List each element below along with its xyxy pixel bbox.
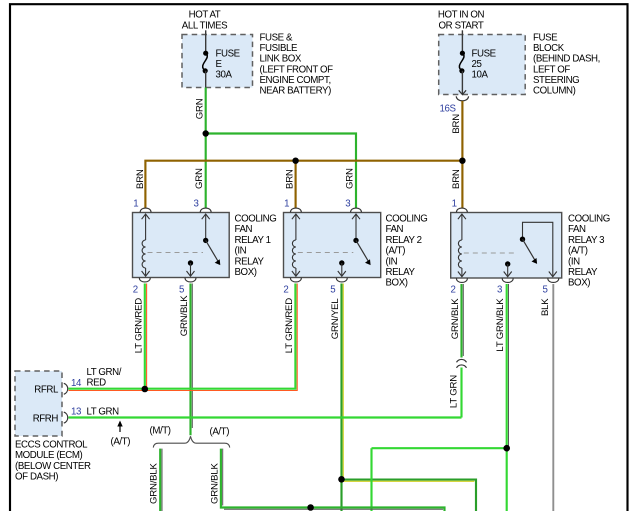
fuse 25 symbol	[459, 51, 465, 74]
svg-text:FUSIBLE: FUSIBLE	[260, 43, 299, 54]
wire stub into fuse E	[205, 30, 207, 53]
node BRN junction at relay2	[292, 158, 298, 164]
wire stub out of fuse E	[205, 71, 207, 88]
relay 3 switch	[504, 222, 557, 276]
svg-text:GRN: GRN	[194, 168, 205, 189]
svg-text:30A: 30A	[216, 70, 233, 81]
arrow (A/T) pointer	[117, 421, 122, 433]
svg-text:3: 3	[194, 199, 199, 210]
label COOLING FAN RELAY 3	[568, 214, 610, 289]
title HOT IN ON OR START	[438, 10, 485, 32]
svg-text:BOX): BOX)	[235, 267, 257, 278]
svg-text:ALL TIMES: ALL TIMES	[182, 20, 228, 31]
svg-text:RFRL: RFRL	[34, 385, 59, 396]
relay 3 box	[451, 213, 562, 279]
svg-text:BRN: BRN	[451, 114, 462, 134]
svg-text:RELAY 3: RELAY 3	[568, 235, 604, 246]
svg-text:FUSE &: FUSE &	[260, 33, 294, 44]
relay 2 coil	[292, 214, 300, 276]
label COOLING FAN RELAY 2	[386, 214, 428, 289]
svg-text:BRN: BRN	[284, 169, 295, 189]
svg-text:3: 3	[497, 285, 502, 296]
svg-text:COLUMN): COLUMN)	[533, 86, 576, 97]
wire GRN/YEL horizontal at y479	[342, 480, 477, 511]
svg-text:(M/T): (M/T)	[150, 426, 171, 437]
svg-text:RED: RED	[87, 378, 107, 389]
label COOLING FAN RELAY 1	[235, 214, 277, 279]
node BRN junction at relay3	[459, 158, 465, 164]
svg-text:LINK BOX: LINK BOX	[260, 54, 302, 65]
svg-text:RELAY: RELAY	[235, 256, 265, 267]
svg-text:(A/T): (A/T)	[568, 246, 588, 257]
svg-text:FAN: FAN	[386, 224, 404, 235]
svg-text:25: 25	[472, 59, 482, 70]
wire BLK relay3 pin5 down	[552, 284, 554, 511]
svg-text:BOX): BOX)	[568, 278, 590, 289]
relay 3 coil	[458, 214, 466, 277]
svg-text:E: E	[216, 59, 223, 70]
svg-text:RELAY: RELAY	[386, 267, 416, 278]
svg-text:HOT IN ON: HOT IN ON	[438, 10, 485, 21]
fusible link E symbol	[203, 51, 209, 74]
svg-text:(LEFT FRONT OF: (LEFT FRONT OF	[260, 64, 334, 75]
wire LT GRN/RED relay1 pin2 down	[145, 284, 147, 389]
wire LT GRN/BLK branch left and down	[372, 447, 507, 449]
node junction LT GRN/BLK	[503, 445, 510, 452]
svg-text:GRN/BLK: GRN/BLK	[450, 298, 461, 340]
svg-text:LEFT OF: LEFT OF	[533, 64, 570, 75]
svg-text:COOLING: COOLING	[568, 214, 610, 225]
relay 3 dashed line	[464, 252, 514, 254]
node junction GRN/YEL	[338, 476, 345, 483]
svg-text:1: 1	[284, 199, 289, 210]
wire GRN from fuse E down	[205, 88, 207, 209]
svg-text:10A: 10A	[472, 70, 489, 81]
relay 2 switch	[338, 214, 371, 276]
svg-text:1: 1	[452, 199, 457, 210]
svg-text:ENGINE COMPT,: ENGINE COMPT,	[260, 75, 331, 86]
node junction LT GRN/RED	[142, 386, 149, 393]
svg-text:(A/T): (A/T)	[111, 437, 131, 448]
svg-text:(IN: (IN	[568, 256, 580, 267]
svg-text:5: 5	[543, 285, 548, 296]
connector arc ECM pin13	[64, 412, 68, 423]
svg-text:FUSE: FUSE	[216, 49, 241, 60]
svg-text:(IN: (IN	[386, 256, 398, 267]
relay 1 dashed line	[148, 252, 204, 254]
wire GRN/YEL relay2 pin5 down	[342, 284, 344, 511]
wire LT GRN up from ECM13 line to connector	[460, 368, 462, 418]
ECM box (dashed)	[15, 371, 62, 436]
svg-text:13: 13	[71, 407, 81, 418]
relay 2 box	[284, 213, 381, 278]
brace M/T A/T	[153, 436, 229, 447]
svg-text:RELAY: RELAY	[568, 267, 598, 278]
svg-text:FUSE: FUSE	[533, 33, 558, 44]
connector arc ECM pin14	[64, 383, 68, 394]
svg-text:5: 5	[179, 285, 184, 296]
svg-text:NEAR BATTERY): NEAR BATTERY)	[260, 86, 332, 97]
svg-text:BLK: BLK	[540, 298, 551, 316]
connector inline (two arcs)	[457, 359, 467, 367]
label FUSE & FUSIBLE LINK BOX	[260, 33, 334, 97]
svg-text:HOT AT: HOT AT	[189, 10, 221, 21]
node GRN junction	[203, 130, 209, 136]
svg-text:COOLING: COOLING	[235, 214, 277, 225]
svg-text:BRN: BRN	[135, 169, 146, 189]
svg-text:LT GRN/RED: LT GRN/RED	[284, 298, 295, 353]
relay 1 switch	[187, 214, 221, 276]
svg-text:2: 2	[283, 285, 288, 296]
wire GRN/BLK relay3 pin2 down	[462, 284, 464, 358]
wire BRN drop to relay2	[295, 161, 297, 208]
svg-text:LT GRN/: LT GRN/	[87, 367, 122, 378]
svg-text:(BELOW CENTER: (BELOW CENTER	[15, 461, 91, 472]
node junction bottom	[307, 504, 314, 511]
wire GRN/BLK A/T branch	[221, 449, 445, 511]
relay 1 box	[133, 213, 230, 278]
fuse box F2 (dashed)	[439, 35, 526, 95]
wire out of fuse 25 with arrow	[461, 71, 463, 94]
svg-text:2: 2	[451, 285, 456, 296]
svg-text:BOX): BOX)	[386, 278, 408, 289]
svg-text:BLOCK: BLOCK	[533, 43, 565, 54]
svg-text:LT GRN: LT GRN	[449, 375, 460, 408]
svg-text:OF DASH): OF DASH)	[15, 472, 58, 483]
svg-text:GRN/YEL: GRN/YEL	[330, 298, 341, 340]
svg-text:LT GRN/BLK: LT GRN/BLK	[495, 298, 506, 352]
svg-text:GRN/BLK: GRN/BLK	[209, 462, 220, 504]
svg-text:2: 2	[133, 285, 138, 296]
connector 16S arc	[456, 96, 468, 101]
svg-text:COOLING: COOLING	[386, 214, 428, 225]
svg-text:RELAY 1: RELAY 1	[235, 235, 271, 246]
svg-text:MODULE (ECM): MODULE (ECM)	[15, 450, 82, 461]
svg-text:GRN: GRN	[345, 168, 356, 189]
svg-text:(A/T): (A/T)	[386, 246, 406, 257]
label FUSE BLOCK	[533, 33, 600, 97]
svg-text:STEERING: STEERING	[533, 75, 579, 86]
svg-text:3: 3	[345, 199, 350, 210]
wire LT GRN/BLK relay3 pin3 down	[507, 284, 509, 511]
svg-text:BRN: BRN	[451, 169, 462, 189]
svg-text:(A/T): (A/T)	[210, 427, 230, 438]
svg-text:GRN: GRN	[194, 98, 205, 119]
fuse box F1 (dashed)	[182, 35, 253, 88]
title HOT AT ALL TIMES	[182, 10, 228, 32]
relay 3 connector arcs	[456, 208, 558, 282]
svg-text:(IN: (IN	[235, 246, 247, 257]
wire GRN/BLK relay1 pin5 down to brace	[191, 284, 193, 436]
wire stub into fuse 25	[461, 30, 463, 53]
svg-text:(BEHIND DASH,: (BEHIND DASH,	[533, 54, 600, 65]
svg-text:RELAY 2: RELAY 2	[386, 235, 422, 246]
wire BRN bus horizontal	[145, 161, 462, 208]
wire LT GRN/RED to ECM pin14	[69, 389, 145, 391]
relay 2 dashed line	[298, 252, 354, 254]
svg-text:GRN/BLK: GRN/BLK	[149, 462, 160, 504]
wire GRN horizontal branch	[206, 134, 356, 209]
svg-text:LT GRN: LT GRN	[87, 407, 120, 418]
wire BRN from fuse block down	[461, 101, 463, 208]
wire GRN/BLK M/T branch	[160, 449, 162, 511]
svg-text:1: 1	[133, 199, 138, 210]
svg-text:16S: 16S	[440, 104, 457, 115]
wire LT GRN horizontal from ECM pin13	[69, 416, 462, 418]
relay 2 connector arcs	[290, 208, 361, 282]
relay 1 coil	[142, 214, 150, 276]
svg-text:ECCS CONTROL: ECCS CONTROL	[15, 440, 88, 451]
svg-text:GRN/BLK: GRN/BLK	[179, 295, 190, 337]
svg-text:14: 14	[71, 378, 82, 389]
svg-text:FAN: FAN	[235, 224, 253, 235]
svg-text:OR START: OR START	[439, 20, 484, 31]
svg-text:FUSE: FUSE	[472, 49, 497, 60]
relay 1 connector arcs	[139, 208, 211, 282]
svg-text:RFRH: RFRH	[33, 414, 59, 425]
svg-text:LT GRN/RED: LT GRN/RED	[133, 298, 144, 353]
label ECCS CONTROL MODULE	[15, 440, 91, 483]
svg-text:5: 5	[330, 285, 335, 296]
wire LT GRN/RED relay2 pin2 down-left	[145, 284, 297, 391]
svg-text:FAN: FAN	[568, 224, 586, 235]
